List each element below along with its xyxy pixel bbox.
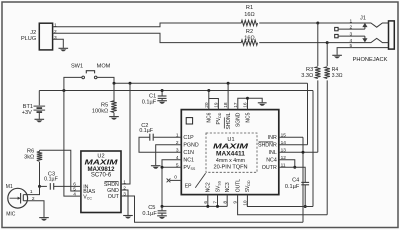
wire INR down joins mic signal — [302, 137, 304, 222]
ground R5 — [109, 116, 119, 118]
ground U2 — [123, 215, 133, 217]
ground SGND — [258, 102, 267, 104]
battery BT1 — [34, 105, 46, 107]
U1 pin 12 NC4 wire — [279, 160, 295, 168]
svg-text:PHONEJACK: PHONEJACK — [353, 57, 388, 63]
capacitor C2 — [149, 134, 151, 141]
svg-text:C1N: C1N — [183, 150, 194, 156]
jack pin4 ring line — [327, 38, 388, 42]
wire J2 pin2 to R2 — [53, 33, 242, 42]
svg-text:NC6: NC6 — [207, 112, 213, 122]
svg-text:NC5: NC5 — [245, 112, 251, 122]
svg-text:OUTL: OUTL — [236, 179, 242, 193]
svg-text:J1: J1 — [360, 15, 366, 21]
resistor R5 — [111, 101, 116, 113]
amplifier U2 MAX9812 box — [81, 151, 121, 213]
svg-text:100kΩ: 100kΩ — [92, 108, 108, 114]
svg-text:18: 18 — [223, 102, 229, 108]
junction C4/SVDD line — [304, 205, 307, 208]
junction INR/INL/mic signal — [302, 151, 305, 154]
pin1 marker square U1 — [186, 118, 192, 124]
svg-text:0.1µF: 0.1µF — [285, 184, 300, 190]
svg-text:14: 14 — [281, 140, 287, 146]
jack ring switch arrow — [364, 36, 366, 38]
svg-text:C1P: C1P — [183, 135, 194, 141]
svg-text:SGND: SGND — [236, 112, 242, 127]
junction rail/C1 — [161, 89, 164, 92]
svg-text:3.3Ω: 3.3Ω — [301, 73, 313, 79]
wire SHDN rail down to SHDNR — [307, 83, 309, 144]
svg-text:0.1µF: 0.1µF — [142, 99, 157, 105]
wire jack pin4 down to R4 — [326, 43, 328, 66]
capacitor C3 — [40, 185, 47, 187]
U1 pin 8 NC3 — [226, 195, 228, 207]
svg-text:8: 8 — [222, 201, 228, 204]
wire rail A to R5 — [113, 83, 115, 101]
svg-text:2: 2 — [32, 196, 35, 202]
svg-text:0: 0 — [174, 175, 177, 181]
mic pin 2 wire to ground — [23, 201, 44, 217]
svg-text:2: 2 — [123, 185, 126, 191]
U1 pin 16 NC5 — [247, 98, 249, 109]
U2 pin 3 OUT long wire to INR/INL — [121, 196, 303, 222]
svg-text:NC4: NC4 — [266, 158, 277, 164]
junction pin7 — [216, 205, 219, 208]
wire R4 to OUTL — [326, 80, 328, 214]
U1 pin 10 SVDD wire to VDD — [247, 195, 313, 207]
svg-text:5: 5 — [350, 43, 353, 49]
junction rail A / SHDNL — [227, 82, 230, 85]
svg-text:1: 1 — [123, 179, 126, 185]
svg-text:EP: EP — [185, 183, 192, 189]
wire rail up to switch — [64, 77, 82, 90]
svg-text:NC2: NC2 — [206, 182, 212, 192]
svg-text:3: 3 — [176, 148, 179, 154]
U1 pin 5 PVSS stub — [162, 166, 181, 168]
resistor R1 — [241, 20, 257, 25]
U1 pin 18 SHDNL — [227, 83, 229, 109]
EP diagonal — [195, 173, 205, 188]
jack pin1 tip line — [318, 23, 389, 27]
wire J2 pin1 to R1 — [53, 23, 242, 27]
svg-text:MOM: MOM — [97, 64, 111, 70]
svg-text:20: 20 — [204, 102, 210, 108]
svg-text:3: 3 — [350, 32, 353, 38]
svg-text:1: 1 — [350, 18, 353, 24]
capacitor C1 — [158, 95, 167, 97]
svg-text:12: 12 — [281, 155, 287, 161]
wire R1 to jack pin1 — [259, 22, 318, 24]
ground PGND — [151, 165, 161, 167]
resistor R2 — [241, 40, 257, 45]
wire R2 to jack pin4 — [259, 42, 327, 44]
svg-text:17: 17 — [233, 102, 239, 108]
svg-text:NC3: NC3 — [225, 182, 231, 192]
wire SHDN rail — [114, 82, 308, 84]
junction SGND/NC5 — [246, 97, 249, 100]
svg-text:4: 4 — [73, 192, 76, 198]
junction rail/PVDD — [207, 89, 210, 92]
U1 pin 7 SVSS — [217, 195, 219, 207]
wire battery to rail — [38, 91, 40, 106]
ground C1 — [157, 100, 167, 102]
connector J2 body — [39, 23, 52, 50]
U2 pin 1 SHDN wire to rail A — [121, 83, 130, 184]
ground C5 — [157, 215, 167, 217]
junction PVSS/C5 — [161, 205, 164, 208]
jack pin2 open contact — [335, 27, 338, 30]
junction R2/R4/jack — [326, 41, 329, 44]
wire rail to C1 — [161, 91, 163, 96]
svg-text:NC1: NC1 — [183, 158, 194, 164]
resistor R6 — [39, 150, 41, 151]
wire switch to rail A — [97, 77, 114, 83]
svg-text:11: 11 — [281, 163, 286, 169]
svg-text:5: 5 — [176, 163, 179, 169]
svg-text:4mm x 4mm: 4mm x 4mm — [216, 158, 246, 164]
U1 pin 2 PGND to ground — [156, 145, 182, 166]
svg-text:+3V: +3V — [22, 110, 32, 116]
wire PVSS tie line — [162, 205, 227, 207]
svg-text:4: 4 — [176, 155, 179, 161]
svg-text:15: 15 — [281, 133, 287, 139]
wire R3 to INL — [317, 80, 319, 152]
svg-text:INL: INL — [269, 150, 277, 156]
microphone M1 — [8, 188, 28, 208]
svg-text:M1: M1 — [6, 184, 13, 190]
U2 pin 2 GND to ground — [121, 190, 128, 215]
U1 pin 20 NC6 — [208, 91, 210, 110]
svg-text:2: 2 — [350, 25, 353, 31]
junction R1/R3/jack — [316, 22, 319, 25]
wire VDD rail — [39, 90, 313, 92]
wire R5 to ground — [113, 113, 115, 116]
U1 pin 11 OUTR wire — [279, 167, 305, 182]
junction mic/R6/C3 — [38, 185, 41, 188]
U2 pin 6 IN stub — [55, 185, 81, 187]
svg-text:5: 5 — [73, 186, 76, 192]
svg-text:3kΩ: 3kΩ — [24, 154, 34, 160]
op-amp U1 MAX4411 box — [181, 110, 278, 195]
svg-text:OUT: OUT — [108, 194, 120, 200]
ground J1 sleeve — [332, 54, 342, 56]
U1 pin 13 INL wire — [279, 151, 318, 153]
U1 pin 4 NC1 / pin 5 PVSS bracket — [162, 160, 181, 207]
U1 pin 17 SGND — [238, 98, 248, 109]
svg-text:R2: R2 — [246, 29, 253, 35]
U1 pin 9 OUTL wire to R4 — [238, 195, 328, 215]
svg-text:3.3Ω: 3.3Ω — [332, 73, 343, 79]
U1 inner dashed outline — [206, 133, 257, 172]
U1 pin 14 SHDNR wire — [279, 144, 308, 146]
svg-text:MAX4411: MAX4411 — [216, 151, 245, 158]
junction pin6 — [206, 205, 209, 208]
svg-text:C4: C4 — [292, 177, 299, 183]
svg-text:20-PIN TQFN: 20-PIN TQFN — [213, 164, 247, 170]
junction NC4/OUTR — [293, 166, 296, 169]
ground mic — [39, 217, 49, 219]
jack pin5 sleeve line — [337, 48, 388, 55]
svg-text:2: 2 — [54, 29, 57, 35]
svg-text:7: 7 — [213, 201, 219, 204]
svg-text:PGND: PGND — [183, 143, 198, 149]
svg-text:SHDNL: SHDNL — [226, 112, 232, 129]
svg-text:16Ω: 16Ω — [244, 12, 254, 18]
connector J1 body — [389, 21, 395, 49]
svg-text:0.1µF: 0.1µF — [142, 211, 157, 217]
svg-text:3: 3 — [123, 191, 126, 197]
junction rail A / U2 SHDN — [129, 82, 132, 85]
svg-text:MAXIM: MAXIM — [213, 141, 249, 150]
svg-text:R1: R1 — [246, 5, 253, 11]
svg-text:10: 10 — [242, 200, 248, 206]
jack pin3 open contact — [335, 34, 338, 37]
svg-text:INR: INR — [268, 135, 277, 141]
svg-text:2: 2 — [176, 140, 179, 146]
svg-text:SHDNR: SHDNR — [258, 143, 277, 149]
svg-text:SW1: SW1 — [71, 64, 83, 70]
mic pin 1 wire — [23, 186, 39, 194]
switch SW1 MOM — [82, 76, 85, 79]
svg-text:0.1µF: 0.1µF — [139, 128, 153, 134]
junction rail A / R5 — [113, 82, 116, 85]
wire to C5 — [161, 206, 163, 210]
junction rail/switch/VCC — [62, 89, 65, 92]
U1 EP pad pin 0 — [170, 179, 182, 181]
svg-text:MIC: MIC — [6, 212, 16, 218]
svg-text:OUTR: OUTR — [262, 165, 277, 171]
svg-text:13: 13 — [281, 148, 287, 154]
svg-text:3: 3 — [54, 35, 57, 41]
wire J2 pin3 to ground — [53, 39, 64, 48]
U2 pin 5 BIAS wire to R6 — [40, 150, 81, 191]
junction NC1/PVSS — [161, 166, 164, 169]
svg-text:1: 1 — [54, 22, 57, 28]
svg-text:9: 9 — [233, 201, 239, 204]
svg-text:1: 1 — [176, 133, 179, 139]
U1 pin 19 PVDD tie — [209, 99, 219, 110]
wire C2 to C1N pin3 — [139, 137, 181, 152]
svg-text:16Ω: 16Ω — [244, 35, 254, 41]
wire SGND to ground — [248, 98, 263, 102]
wire battery to ground — [38, 112, 40, 119]
svg-text:0.1µF: 0.1µF — [44, 177, 58, 183]
svg-text:SC70-6: SC70-6 — [91, 172, 112, 178]
svg-text:6: 6 — [203, 201, 209, 204]
capacitor C5 — [158, 210, 167, 212]
capacitor C4 — [301, 181, 309, 183]
U1 pin 6 NC2 — [207, 195, 209, 207]
jack tip switch arrow — [364, 27, 366, 29]
U1 pin 15 INR wire — [279, 136, 303, 138]
resistor R3 — [315, 67, 320, 79]
wire VDD rail down right side — [312, 91, 314, 207]
svg-text:16: 16 — [243, 102, 249, 108]
ground battery — [35, 118, 45, 120]
svg-text:19: 19 — [214, 102, 220, 108]
ground J2 — [59, 47, 69, 49]
svg-text:PLUG: PLUG — [21, 36, 36, 42]
wire jack pin1 down to R3 — [317, 23, 319, 66]
resistor R4 — [325, 67, 330, 79]
svg-text:1: 1 — [30, 189, 33, 195]
U1 pin 1 C1P wire with C2 — [154, 136, 182, 138]
U2 pin 4 VCC wire to rail — [64, 91, 81, 197]
